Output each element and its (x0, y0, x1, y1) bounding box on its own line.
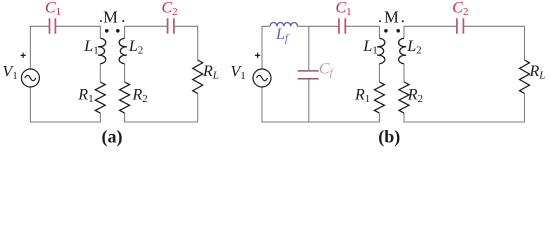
svg-text:L2: L2 (128, 38, 143, 57)
svg-text:Cf: Cf (319, 60, 335, 79)
svg-text:R2: R2 (132, 87, 148, 106)
svg-text:R1: R1 (354, 87, 370, 106)
svg-text:M: M (384, 7, 399, 26)
svg-text:L2: L2 (406, 38, 421, 57)
svg-text:Lf: Lf (275, 26, 290, 45)
svg-text:M: M (103, 7, 118, 26)
svg-text:V1: V1 (231, 63, 246, 82)
svg-text:C2: C2 (452, 0, 468, 18)
svg-text:L1: L1 (83, 38, 98, 57)
svg-text:C1: C1 (45, 0, 61, 18)
svg-text:(b): (b) (378, 127, 400, 148)
svg-text:RL: RL (529, 63, 546, 82)
svg-text:R2: R2 (407, 87, 423, 106)
svg-text:V1: V1 (3, 63, 18, 82)
svg-text:(a): (a) (102, 127, 123, 148)
svg-text:RL: RL (202, 63, 219, 82)
svg-text:R1: R1 (77, 87, 93, 106)
svg-text:C1: C1 (336, 0, 352, 18)
svg-text:C2: C2 (162, 0, 178, 18)
svg-text:L1: L1 (362, 38, 377, 57)
